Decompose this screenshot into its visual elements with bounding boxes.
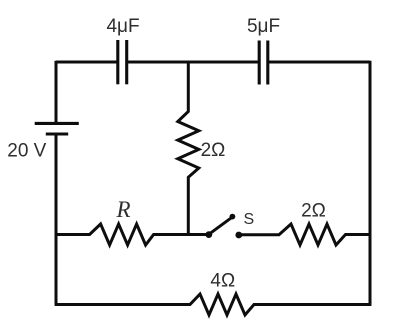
svg-text:2Ω: 2Ω — [301, 200, 326, 221]
svg-text:4μF: 4μF — [106, 16, 139, 37]
svg-text:2Ω: 2Ω — [201, 140, 226, 161]
svg-text:4Ω: 4Ω — [210, 271, 235, 292]
svg-text:20 V: 20 V — [7, 140, 46, 161]
svg-text:5μF: 5μF — [247, 16, 280, 37]
svg-text:R: R — [115, 197, 130, 222]
svg-text:S: S — [243, 211, 254, 228]
